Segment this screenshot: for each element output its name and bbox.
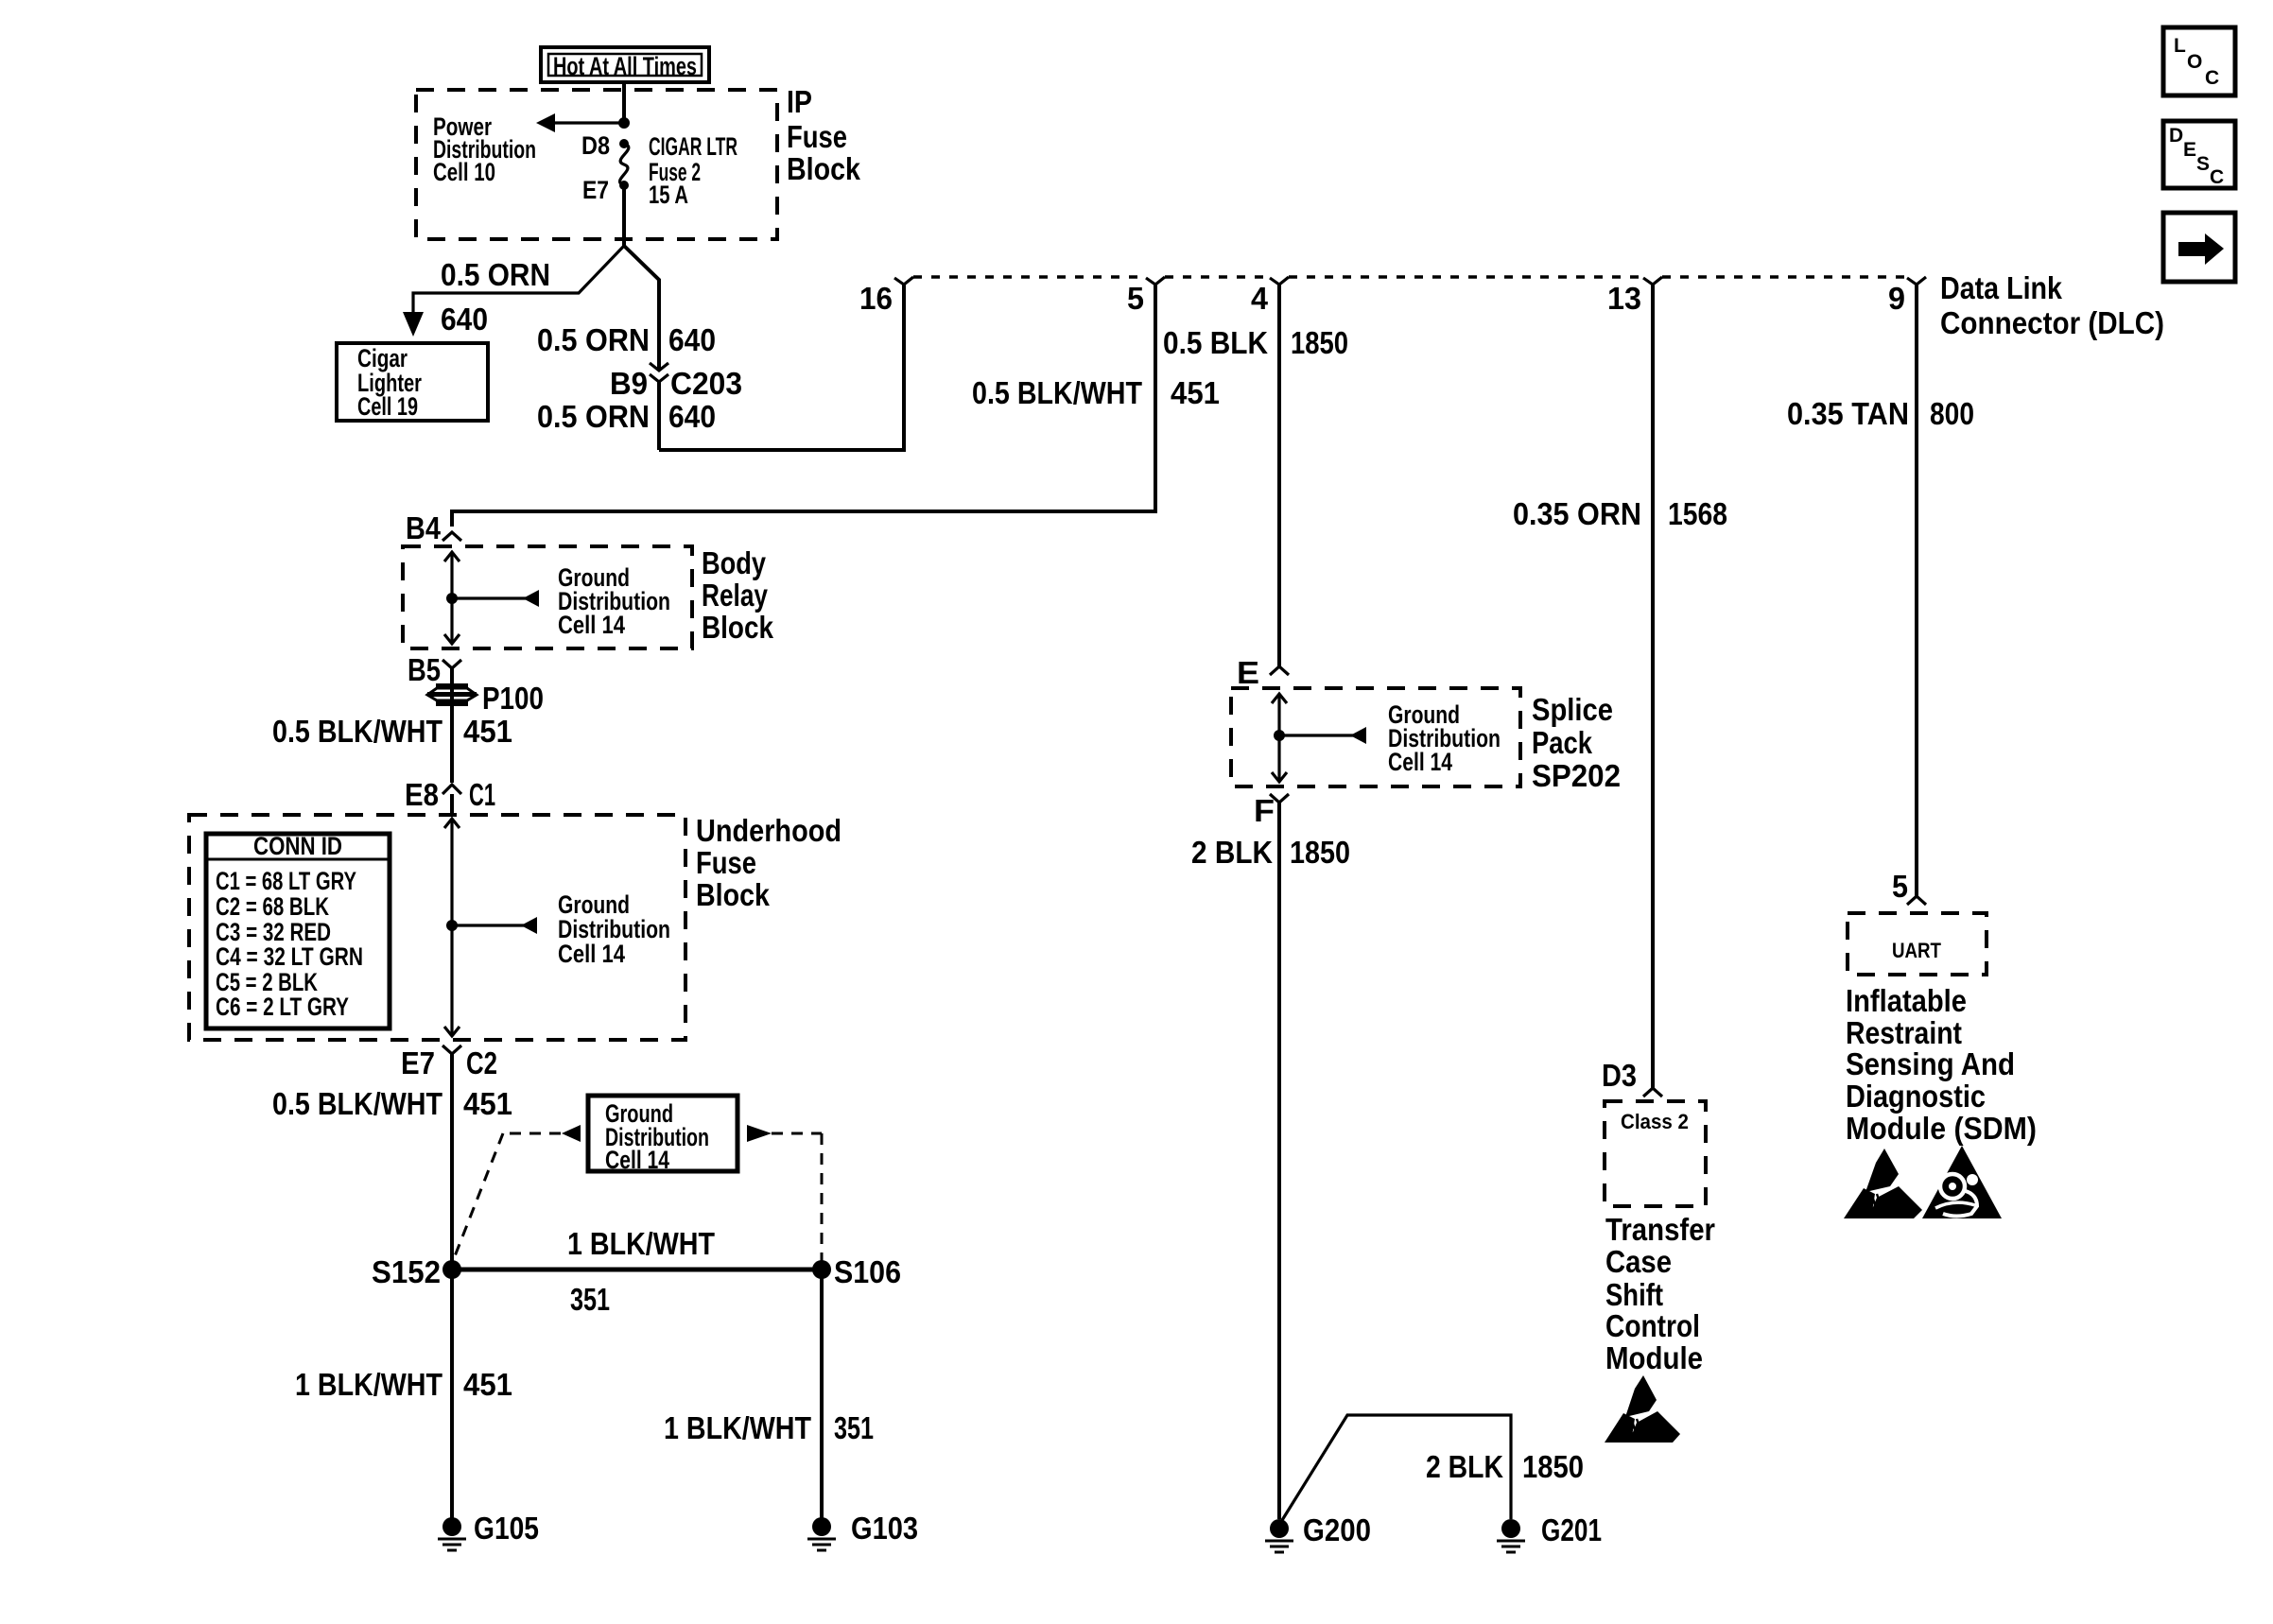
wire arrow to Power Distribution [552,121,624,124]
svg-text:C4 = 32 LT GRN: C4 = 32 LT GRN [216,942,363,971]
svg-text:Block: Block [702,610,774,645]
DLC internal bus (dashed) [913,275,1146,279]
svg-text:SP202: SP202 [1532,758,1621,793]
wire fuse output down to split [622,185,626,246]
svg-text:Module (SDM): Module (SDM) [1846,1111,2037,1146]
svg-text:Hot At All Times: Hot At All Times [553,52,697,80]
wire left branch to cigar lighter [413,246,624,321]
svg-text:G103: G103 [851,1511,918,1546]
svg-text:351: 351 [834,1410,874,1445]
connector DLC pin 16 [894,277,913,285]
connector DLC pin 13 [1643,277,1662,285]
svg-text:Underhood: Underhood [696,813,842,848]
grommet P100 [427,683,477,706]
connector E [1270,666,1289,675]
label Data Link Connector (DLC) [1940,270,2164,340]
UART dashed box [1848,913,1987,975]
wire F down to G200 [1277,803,1281,1519]
svg-text:S152: S152 [372,1254,441,1289]
svg-text:451: 451 [463,1086,512,1121]
Body Relay Block dashed outline [403,546,692,648]
svg-text:0.35 ORN: 0.35 ORN [1513,496,1641,531]
svg-text:4: 4 [1251,281,1269,316]
wire S152 to G105 [450,1270,454,1519]
svg-text:Control: Control [1605,1308,1700,1343]
ground G105 [438,1517,466,1550]
svg-text:2 BLK: 2 BLK [1191,835,1273,870]
svg-text:0.5 BLK: 0.5 BLK [1163,325,1268,360]
connector SDM pin 5 [1907,896,1926,905]
connector B5 [442,660,461,668]
svg-text:C1: C1 [469,777,495,812]
splice S106 [812,1260,831,1279]
svg-text:Data Link: Data Link [1940,270,2063,305]
svg-text:S: S [2196,153,2210,175]
label Ground Distribution Cell 14 (underhood) [558,890,670,968]
svg-text:D8: D8 [581,131,610,160]
wire from Hot At All Times into fuse block [622,82,626,124]
svg-text:Transfer: Transfer [1605,1212,1715,1247]
label Ground Distribution Cell 14 (body relay) [558,563,670,639]
fuse terminal dot D8 [619,139,629,148]
label Transfer Case Shift Control Module [1605,1212,1715,1375]
svg-text:C203: C203 [670,366,742,401]
svg-text:Shift: Shift [1605,1277,1663,1312]
svg-text:G200: G200 [1303,1512,1371,1547]
svg-text:L: L [2174,35,2186,57]
svg-text:5: 5 [1127,281,1144,316]
svg-text:Block: Block [696,877,771,912]
ground G200 [1265,1519,1293,1552]
component box Cigar Lighter Cell 19 [337,343,488,421]
svg-text:C6 = 2 LT GRY: C6 = 2 LT GRY [216,993,349,1021]
wire below C203 [657,382,661,450]
svg-text:0.5 BLK/WHT: 0.5 BLK/WHT [272,1086,442,1121]
connector B9 / C203 inline chevrons [650,363,668,382]
label CIGAR LTR Fuse 2 15 A [649,132,737,209]
svg-text:1568: 1568 [1668,496,1727,531]
ESD caution triangle (SDM) [1844,1149,1922,1218]
splice S152 [442,1260,461,1279]
wire S106 to G103 [820,1270,824,1519]
svg-text:Splice: Splice [1532,692,1613,727]
SIR caution triangle (SDM) [1922,1146,2002,1218]
svg-text:Inflatable: Inflatable [1846,983,1967,1018]
dashed reference arrow right to S106 [747,1125,822,1261]
label Splice Pack SP202 [1532,692,1621,793]
svg-text:B9: B9 [610,366,648,401]
svg-text:Connector (DLC): Connector (DLC) [1940,305,2164,340]
svg-text:G201: G201 [1541,1512,1602,1547]
Class 2 dashed box [1605,1101,1706,1206]
icon DESC reference box [2163,121,2235,188]
connector F [1270,794,1289,803]
svg-text:C2 = 68 BLK: C2 = 68 BLK [216,892,329,921]
wire G200 to G201 [1279,1415,1511,1525]
svg-text:Case: Case [1605,1244,1672,1279]
label Ground Distribution Cell 14 (splice pack) [1388,700,1501,776]
svg-text:C1 = 68 LT GRY: C1 = 68 LT GRY [216,867,356,895]
svg-text:Fuse: Fuse [787,119,847,154]
svg-text:F: F [1254,793,1275,828]
Splice Pack SP202 dashed outline [1231,688,1520,786]
svg-text:640: 640 [668,322,716,357]
svg-text:Diagnostic: Diagnostic [1846,1079,1986,1114]
fuse terminal dot E7 [619,181,629,190]
connector D3 [1643,1088,1662,1097]
svg-text:E7: E7 [582,176,609,204]
svg-text:1 BLK/WHT: 1 BLK/WHT [567,1226,715,1261]
wire DLC pin 13 down to D3 [1651,285,1655,1088]
svg-text:0.5 BLK/WHT: 0.5 BLK/WHT [272,714,442,749]
svg-text:Cell 14: Cell 14 [558,611,625,639]
svg-text:351: 351 [570,1282,610,1317]
svg-text:5: 5 [1892,869,1908,904]
svg-text:Fuse: Fuse [696,845,756,880]
svg-text:Cell 10: Cell 10 [433,158,495,186]
svg-text:Sensing And: Sensing And [1846,1046,2015,1081]
svg-text:Block: Block [787,151,861,186]
svg-text:D3: D3 [1602,1058,1637,1093]
Ground Distribution Cell 14 reference box [588,1096,737,1174]
junction dot at power feed [618,117,630,129]
svg-text:E7: E7 [401,1045,435,1080]
svg-text:1 BLK/WHT: 1 BLK/WHT [295,1367,442,1402]
svg-text:C2: C2 [466,1045,497,1080]
label IP Fuse Block [787,84,861,186]
wire DLC pin 5 down and across to B4 [452,285,1155,527]
svg-text:Module: Module [1605,1340,1703,1375]
svg-text:0.5 ORN: 0.5 ORN [537,399,650,434]
connector DLC pin 5 [1146,277,1165,285]
svg-text:0.5 BLK/WHT: 0.5 BLK/WHT [972,375,1142,410]
svg-text:Cell 14: Cell 14 [605,1146,669,1174]
svg-text:0.5 ORN: 0.5 ORN [441,257,550,292]
connector E7 / C2 [442,1045,461,1054]
svg-text:G105: G105 [474,1511,539,1546]
wire run to DLC pin 16 [659,285,904,450]
svg-text:451: 451 [463,714,512,749]
svg-text:O: O [2187,51,2202,73]
connector E8 / C1 [442,785,461,794]
svg-text:B4: B4 [406,510,442,545]
svg-text:15 A: 15 A [649,181,688,209]
svg-text:D: D [2169,125,2183,147]
svg-text:Body: Body [702,545,767,580]
wire right branch down to C203 [624,246,659,370]
svg-text:451: 451 [1171,375,1220,410]
svg-text:1850: 1850 [1291,325,1348,360]
svg-text:B5: B5 [408,652,441,687]
connector B4 [442,532,461,541]
svg-text:1850: 1850 [1522,1449,1584,1484]
wire S152 to S106 [452,1268,822,1272]
svg-text:0.35 TAN: 0.35 TAN [1787,396,1909,431]
svg-text:P100: P100 [482,681,544,716]
svg-text:640: 640 [441,302,488,337]
wire DLC pin 9 down to SDM [1915,285,1918,896]
svg-text:CIGAR LTR: CIGAR LTR [649,132,737,161]
ground distribution wire inside Body Relay Block [444,552,539,644]
ground distribution wire inside Underhood Fuse Block [444,819,537,1036]
svg-text:9: 9 [1888,281,1905,316]
svg-text:640: 640 [668,399,716,434]
svg-text:CONN ID: CONN ID [253,832,342,860]
label Power Distribution Cell 10 [433,112,536,186]
svg-text:Cell 14: Cell 14 [558,940,625,968]
power source box Hot At All Times [541,47,709,82]
arrowhead into Cigar Lighter [403,312,424,337]
svg-text:IP: IP [787,84,812,119]
label Underhood Fuse Block [696,813,842,912]
ESD caution triangle (transfer case module) [1605,1375,1680,1443]
wire B5 through P100 to E8 [450,668,454,783]
svg-text:800: 800 [1930,396,1974,431]
ground distribution wire inside splice pack [1272,694,1366,782]
svg-text:Restraint: Restraint [1846,1015,1962,1050]
svg-text:2 BLK: 2 BLK [1426,1449,1503,1484]
ground G201 [1497,1519,1525,1552]
svg-text:Relay: Relay [702,578,769,613]
svg-text:C: C [2205,67,2219,89]
icon LOC reference box [2163,27,2235,95]
wire E8 into underhood fuse block [450,794,454,817]
wire E7/C2 down to S152 [450,1054,454,1270]
connector DLC pin 9 [1907,277,1926,285]
label Body Relay Block [702,545,774,645]
svg-text:Cell 14: Cell 14 [1388,748,1452,776]
svg-text:C: C [2210,166,2224,188]
svg-text:Class 2: Class 2 [1621,1110,1689,1133]
CONN ID table [206,832,390,1028]
svg-text:1850: 1850 [1290,835,1350,870]
svg-text:E: E [1237,655,1259,690]
connector DLC pin 4 [1270,277,1289,285]
dashed reference arrow left to S152 [453,1125,581,1261]
svg-text:UART: UART [1892,939,1941,962]
svg-text:E: E [2183,139,2196,161]
svg-text:1 BLK/WHT: 1 BLK/WHT [664,1410,811,1445]
label Inflatable Restraint Sensing And Diagnostic Module (SDM) [1846,983,2037,1146]
svg-text:16: 16 [859,281,893,316]
svg-text:13: 13 [1607,281,1641,316]
Underhood Fuse Block dashed outline [189,815,685,1040]
icon forward arrow box [2163,213,2235,282]
ground G103 [807,1517,836,1550]
wire DLC pin 4 down to splice pack E [1277,285,1281,666]
svg-text:0.5 ORN: 0.5 ORN [537,322,650,357]
svg-text:Pack: Pack [1532,725,1593,760]
svg-text:Cell 19: Cell 19 [357,392,418,421]
fuse F2 CIGAR LTR 15A element [620,144,629,185]
svg-text:S106: S106 [834,1254,901,1289]
svg-text:451: 451 [463,1367,512,1402]
svg-text:E8: E8 [405,777,439,812]
IP Fuse Block dashed outline [416,90,777,239]
